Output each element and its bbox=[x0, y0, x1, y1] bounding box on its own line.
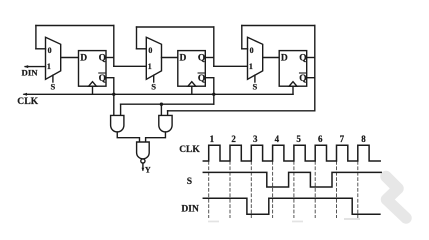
D flip-flop FF2 bbox=[178, 51, 206, 87]
wire FF3 Q output stub bbox=[307, 57, 315, 59]
svg-text:3: 3 bbox=[253, 134, 258, 144]
feedback wire stage2: top horizontal bbox=[137, 26, 214, 28]
svg-text:0: 0 bbox=[48, 46, 52, 55]
wire M2 output to FF2 D bbox=[162, 57, 178, 59]
wire FF1 Qbar stub bbox=[106, 77, 114, 79]
mux M1 (2:1 multiplexer, stage 1) bbox=[46, 37, 61, 79]
wire W3 (Qbar3 rail to AND gate G2) bbox=[168, 110, 315, 112]
DIN waveform trace bbox=[203, 198, 380, 214]
wire V2 to M3 input 1 bbox=[214, 65, 248, 67]
wire W2 drop to G1 right input bbox=[120, 104, 122, 115]
feedback wire stage3: stub to mux 0 input bbox=[242, 48, 248, 50]
wire FF2 Qbar stub bbox=[205, 77, 214, 79]
svg-text:DIN: DIN bbox=[181, 204, 199, 214]
junction dot V2 x CLK rail bbox=[212, 93, 215, 96]
svg-text:Q: Q bbox=[299, 74, 306, 84]
svg-text:Q: Q bbox=[99, 74, 106, 84]
node vertical V3 (feedback top down to wire W3) bbox=[314, 26, 316, 111]
svg-text:Y: Y bbox=[145, 166, 151, 175]
M2 select stem wire bbox=[153, 75, 155, 82]
wire FF3 Qbar stub bbox=[307, 77, 315, 79]
D flip-flop FF1 bbox=[79, 51, 107, 87]
clock cycle numbers 1-8 bbox=[210, 134, 367, 144]
svg-text:1: 1 bbox=[47, 62, 51, 71]
svg-text:D: D bbox=[80, 54, 87, 64]
AND gate G1 (points down) bbox=[111, 115, 124, 132]
FF3 clock triangle bbox=[289, 82, 297, 87]
feedback wire stage3: top horizontal bbox=[242, 25, 315, 27]
svg-text:S: S bbox=[187, 177, 192, 187]
wire G2 output to G3 bbox=[146, 132, 166, 142]
wire FF1 Q output stub bbox=[106, 57, 114, 59]
wire V1 to M2 input 1 bbox=[114, 65, 147, 67]
D flip-flop FF3 bbox=[279, 51, 307, 87]
svg-text:CLK: CLK bbox=[17, 96, 38, 107]
wire V1 lower (Qbar down to AND gate G1) bbox=[113, 78, 115, 116]
wire W3 drop to G2 right input bbox=[167, 111, 169, 116]
svg-text:S: S bbox=[151, 81, 156, 91]
wire W2 (Qbar2 rail to AND gates) bbox=[121, 103, 214, 105]
svg-text:1: 1 bbox=[249, 62, 253, 71]
svg-text:5: 5 bbox=[296, 134, 301, 144]
svg-text:0: 0 bbox=[250, 46, 254, 55]
DIN input wire with arrowhead bbox=[24, 65, 46, 68]
wire G1 output to G3 bbox=[117, 132, 139, 142]
svg-text:1: 1 bbox=[148, 62, 152, 71]
svg-text:D: D bbox=[281, 54, 288, 64]
svg-text:Q: Q bbox=[198, 74, 205, 84]
feedback wire stage2: vertical left bbox=[136, 27, 138, 49]
svg-text:0: 0 bbox=[148, 46, 152, 55]
FF1 pin label Qbar bbox=[99, 73, 106, 84]
wire M1 output to FF1 D bbox=[61, 57, 79, 59]
svg-text:CLK: CLK bbox=[179, 145, 200, 155]
FF2 pin label Qbar bbox=[198, 73, 205, 84]
S waveform trace bbox=[203, 172, 381, 187]
FF1 clock drop wire bbox=[92, 86, 94, 94]
CLK waveform trace bbox=[203, 145, 380, 161]
svg-text:S: S bbox=[253, 81, 258, 91]
svg-text:Q: Q bbox=[299, 54, 306, 64]
AND gate G2 (points down) bbox=[159, 115, 172, 132]
svg-text:2: 2 bbox=[231, 134, 236, 144]
FF3 clock drop wire (CLK rail end rises here) bbox=[292, 86, 294, 94]
svg-text:6: 6 bbox=[318, 134, 323, 144]
svg-text:8: 8 bbox=[361, 134, 366, 144]
wire M3 output to FF3 D bbox=[263, 57, 280, 59]
FF2 clock triangle bbox=[188, 82, 196, 87]
node vertical V1 upper (feedback top to next-stage 1 input) bbox=[113, 26, 115, 67]
svg-text:Q: Q bbox=[99, 54, 106, 64]
mux M3 (2:1 multiplexer, stage 3) bbox=[248, 37, 263, 79]
svg-text:7: 7 bbox=[340, 134, 345, 144]
output wire Y with arrowhead bbox=[142, 163, 145, 171]
junction dot V1 x CLK rail bbox=[112, 93, 115, 96]
feedback wire stage3: vertical left bbox=[241, 26, 243, 49]
wire W2 tap drop to G2 left input bbox=[160, 104, 162, 115]
svg-text:DIN: DIN bbox=[22, 68, 39, 78]
watermark fragment bottom bbox=[208, 218, 360, 222]
svg-text:1: 1 bbox=[210, 134, 215, 144]
M1 select stem wire bbox=[52, 75, 54, 82]
FF2 clock drop wire bbox=[191, 86, 193, 94]
node vertical V2 upper bbox=[213, 27, 215, 66]
svg-text:Q: Q bbox=[198, 54, 205, 64]
FF1 clock triangle bbox=[89, 82, 97, 87]
wire V2 lower (Qbar down to wire W2) bbox=[213, 78, 215, 105]
NAND gate G3 (points down, with bubble) bbox=[137, 142, 150, 159]
feedback wire stage1: top horizontal bbox=[36, 25, 114, 27]
svg-text:D: D bbox=[180, 54, 187, 64]
mux M2 (2:1 multiplexer, stage 2) bbox=[146, 37, 161, 79]
FF3 pin label Qbar bbox=[299, 73, 306, 84]
junction dot W2 tap bbox=[160, 103, 163, 106]
G3 output bubble bbox=[141, 159, 145, 163]
watermark chevron (light gray) bbox=[386, 177, 406, 219]
M3 select stem wire bbox=[254, 75, 256, 82]
svg-text:4: 4 bbox=[275, 134, 280, 144]
dashed gridlines at clock rising edges bbox=[209, 162, 358, 218]
feedback wire stage2: stub to mux 0 input bbox=[137, 48, 147, 50]
CLK rail wire with arrowhead bbox=[23, 93, 293, 96]
feedback wire stage1: vertical left bbox=[35, 26, 37, 49]
svg-text:S: S bbox=[51, 81, 56, 91]
feedback wire stage1: stub to mux 0 input bbox=[36, 48, 46, 50]
wire FF2 Q output stub bbox=[205, 57, 214, 59]
